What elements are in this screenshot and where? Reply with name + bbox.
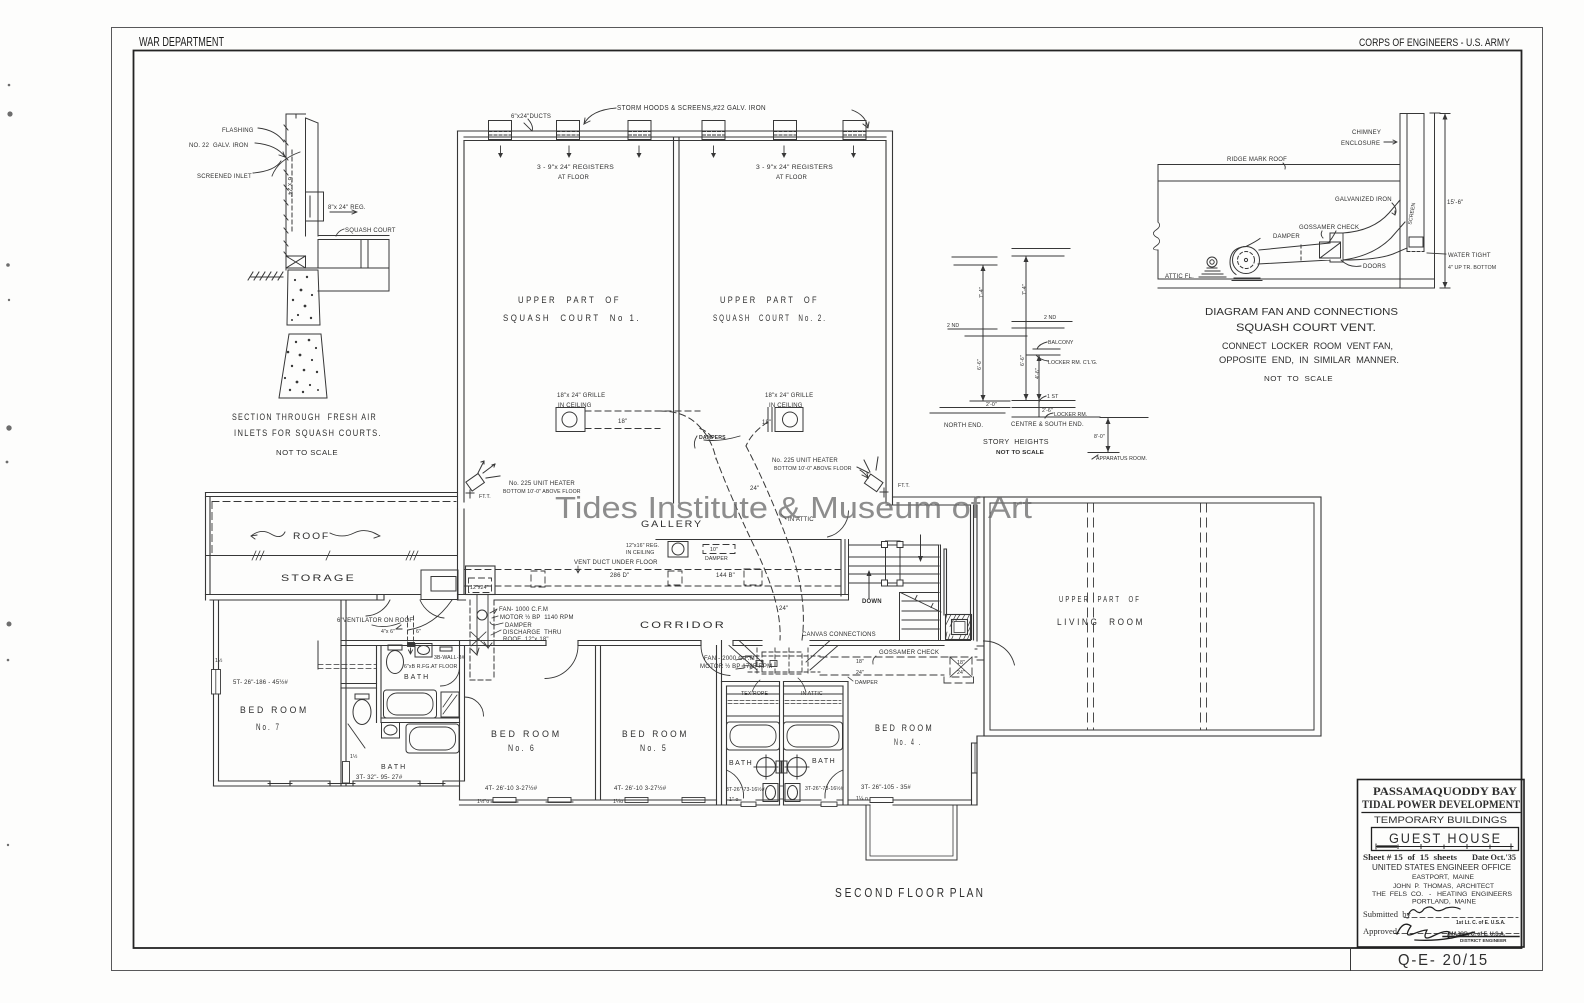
west wall with window (214, 600, 219, 786)
living room dashed beams (1088, 503, 1207, 730)
svg-text:FLASHING: FLASHING (222, 128, 254, 134)
svg-text:18": 18" (618, 419, 627, 425)
unit heater court 2 (857, 457, 888, 497)
svg-text:STORY HEIGHTS: STORY HEIGHTS (983, 439, 1049, 446)
fan diagram: chimney enclosure (1153, 113, 1450, 288)
tubs (727, 722, 780, 750)
svg-text:6"VENTILATOR ON ROOF: 6"VENTILATOR ON ROOF (337, 618, 413, 624)
leaders (1036, 342, 1053, 418)
svg-text:10": 10" (710, 547, 718, 553)
tub 1 (384, 690, 437, 718)
lower bath fixtures (353, 694, 459, 753)
svg-text:CANVAS CONNECTIONS: CANVAS CONNECTIONS (802, 632, 876, 638)
svg-text:WATER TIGHT: WATER TIGHT (1448, 253, 1491, 259)
svg-text:MOTOR ½ BP 1140 RPM: MOTOR ½ BP 1140 RPM (500, 614, 574, 621)
svg-text:DAMPER: DAMPER (705, 556, 728, 562)
floor plan: roof / storage block (206, 493, 458, 601)
storage north wall (206, 493, 458, 497)
upper bath south wall (381, 718, 460, 723)
damper duct Y (dashed) (660, 411, 803, 640)
svg-text:FAN- 1000 C.F.M: FAN- 1000 C.F.M (499, 607, 548, 613)
svg-text:GOSSAMER CHECK: GOSSAMER CHECK (1299, 225, 1359, 231)
south wall with windows (214, 781, 460, 786)
stair east wall (939, 545, 941, 640)
svg-text:2'-6": 2'-6" (1042, 408, 1053, 414)
svg-text:GOSSAMER CHECK: GOSSAMER CHECK (879, 650, 939, 656)
centre floor lines (1012, 249, 1070, 257)
closet shelves (727, 694, 844, 716)
svg-text:15'-6": 15'-6" (1447, 200, 1463, 206)
svg-text:No. 6: No. 6 (508, 743, 536, 754)
lower wall extension (306, 268, 390, 291)
south walls/windows (722, 804, 849, 806)
reg in ceiling box (668, 542, 688, 558)
north end dim line (982, 265, 984, 401)
svg-text:18"x 24" GRILLE: 18"x 24" GRILLE (765, 393, 813, 399)
floor plan: east wall, chimney (843, 497, 984, 646)
svg-text:PASSAMAQUODDY BAY: PASSAMAQUODDY BAY (1373, 784, 1517, 798)
svg-text:CHIMNEY: CHIMNEY (1352, 130, 1381, 136)
x-brace at wall base (286, 256, 306, 268)
svg-text:8"x 24" REG.: 8"x 24" REG. (328, 205, 366, 211)
svg-text:2 ND: 2 ND (947, 323, 959, 329)
svg-text:No. 5: No. 5 (640, 743, 668, 754)
svg-text:4"x 6": 4"x 6" (381, 629, 395, 635)
svg-text:NORTH END.: NORTH END. (944, 423, 983, 429)
signature 2 (1397, 924, 1475, 940)
svg-text:ROOF: ROOF (293, 531, 330, 541)
basins (763, 784, 800, 802)
story heights diagram (930, 249, 1148, 460)
squash courts: walls (458, 131, 893, 509)
south wall w/ windows (460, 800, 722, 805)
west wall below courts (458, 509, 465, 600)
svg-text:SECTION THROUGH FRESH AIR: SECTION THROUGH FRESH AIR (232, 412, 377, 422)
svg-text:LOCKER RM.: LOCKER RM. (1054, 412, 1087, 418)
svg-text:3 - 9"x 24" REGISTERS: 3 - 9"x 24" REGISTERS (537, 165, 614, 171)
svg-text:TEMPORARY BUILDINGS: TEMPORARY BUILDINGS (1374, 815, 1507, 826)
signature 1 (1408, 907, 1460, 915)
svg-text:4'-6": 4'-6" (1035, 368, 1041, 379)
svg-text:JOHN P. THOMAS, ARCHITECT: JOHN P. THOMAS, ARCHITECT (1393, 883, 1494, 890)
svg-text:CORPS OF ENGINEERS - U.S. ARMY: CORPS OF ENGINEERS - U.S. ARMY (1359, 37, 1511, 49)
unit heater court 1 (466, 461, 500, 498)
duct to right (1258, 233, 1343, 264)
partition (377, 646, 382, 723)
fan motor (1207, 257, 1217, 267)
title block box (1358, 780, 1525, 948)
svg-text:CONNECT LOCKER ROOM VENT FA: CONNECT LOCKER ROOM VENT FAN, (1222, 341, 1393, 351)
svg-text:3T- 32"- 95- 27#: 3T- 32"- 95- 27# (356, 775, 403, 781)
svg-text:2 ND: 2 ND (1044, 315, 1056, 321)
chimney hatched (946, 615, 972, 640)
roof vent hoods (489, 121, 867, 140)
squash to living connector walls (886, 497, 984, 505)
outer walls (722, 682, 849, 687)
svg-text:18": 18" (957, 660, 965, 666)
svg-text:BALCONY: BALCONY (1048, 340, 1074, 346)
svg-text:1½: 1½ (350, 753, 358, 760)
up arrow (868, 575, 870, 598)
svg-text:6"xB R.FG.AT FLOOR: 6"xB R.FG.AT FLOOR (404, 664, 457, 670)
floor plan: west bath complex (318, 641, 465, 801)
svg-text:UPPER PART OF: UPPER PART OF (1059, 594, 1141, 604)
svg-text:1 ST: 1 ST (1047, 394, 1059, 400)
svg-text:IN CEILING: IN CEILING (558, 403, 592, 409)
west wall (341, 646, 346, 787)
svg-text:FT.T.: FT.T. (898, 483, 910, 489)
svg-text:ATTIC FL.: ATTIC FL. (1165, 274, 1194, 280)
floor plan: living room (975, 497, 1321, 805)
closet at storage SE (366, 570, 458, 630)
svg-text:NOT TO SCALE: NOT TO SCALE (996, 450, 1045, 456)
svg-text:6"x24"DUCTS: 6"x24"DUCTS (511, 114, 551, 120)
svg-text:1½: 1½ (215, 657, 223, 664)
svg-text:PORTLAND, MAINE: PORTLAND, MAINE (1412, 899, 1476, 906)
svg-text:3T-26"-73-16½#: 3T-26"-73-16½# (726, 786, 765, 793)
storm hoods leader (524, 108, 869, 131)
svg-text:MOTOR ½ BP 1725 RPM: MOTOR ½ BP 1725 RPM (700, 663, 772, 670)
svg-text:24": 24" (957, 670, 965, 676)
svg-text:BED ROOM: BED ROOM (875, 723, 934, 734)
squash court floor (318, 236, 389, 240)
svg-text:STORAGE: STORAGE (281, 573, 356, 583)
shower stall (441, 692, 459, 717)
svg-text:BOTTOM 10'-0" ABOVE FLOOR: BOTTOM 10'-0" ABOVE FLOOR (774, 466, 852, 472)
svg-text:3B-WALL-3#: 3B-WALL-3# (434, 655, 465, 661)
svg-text:DISTRICT ENGINEER: DISTRICT ENGINEER (1460, 938, 1507, 943)
left margin punch marks (6, 84, 13, 847)
svg-text:TIDAL POWER DEVELOPMENT: TIDAL POWER DEVELOPMENT (1362, 799, 1520, 811)
floor plan: center baths (722, 682, 849, 806)
gallery south wall / corridor north wall (458, 595, 849, 601)
svg-text:BATH: BATH (729, 760, 753, 767)
svg-text:Q-E- 20/15: Q-E- 20/15 (1398, 952, 1489, 969)
south wall (848, 800, 977, 805)
attic floor (1158, 279, 1435, 288)
svg-text:No. 4 .: No. 4 . (894, 737, 922, 748)
svg-text:1st Lt. C. of E. U.S.A.: 1st Lt. C. of E. U.S.A. (1456, 920, 1506, 926)
svg-text:1¼o: 1¼o (613, 799, 623, 805)
svg-text:Date Oct.'35: Date Oct.'35 (1472, 852, 1516, 862)
svg-text:BED ROOM: BED ROOM (491, 729, 562, 740)
svg-text:12"x16" REG.: 12"x16" REG. (626, 543, 659, 549)
upper flight treads (849, 545, 940, 583)
louver ticks on wall (284, 125, 288, 257)
svg-text:DISCHARGE THRU: DISCHARGE THRU (503, 630, 562, 636)
svg-text:7'-4": 7'-4" (1022, 284, 1028, 295)
eave hatch marks (252, 551, 418, 560)
svg-text:DAMPER: DAMPER (855, 680, 878, 686)
svg-text:3T- 26"-105 - 35#: 3T- 26"-105 - 35# (861, 785, 911, 791)
toilets (754, 755, 809, 779)
floor plan: gallery (458, 509, 849, 600)
svg-text:6'-6": 6'-6" (977, 359, 983, 370)
svg-text:MAJOR, C. of E. U.S.A.: MAJOR, C. of E. U.S.A. (1449, 932, 1506, 938)
svg-text:SQUASH COURT VENT.: SQUASH COURT VENT. (1236, 322, 1376, 334)
svg-text:RIDGE MARK ROOF: RIDGE MARK ROOF (1227, 157, 1287, 163)
svg-text:DAMPER: DAMPER (1273, 234, 1300, 240)
stair west wall (845, 540, 849, 601)
svg-text:Tides Institute & Museum of Ar: Tides Institute & Museum of Art (555, 490, 1032, 525)
floor plan: vent shaft + fan 1000cfm (470, 595, 494, 681)
roof lines (1158, 165, 1400, 182)
svg-text:6": 6" (416, 629, 421, 635)
svg-text:BATH: BATH (381, 764, 407, 771)
flashing dashed line (291, 150, 293, 232)
svg-text:BED ROOM: BED ROOM (240, 705, 309, 716)
svg-text:18"x 24" GRILLE: 18"x 24" GRILLE (557, 393, 605, 399)
svg-text:1¼ o: 1¼ o (856, 796, 868, 802)
floor plan: stairs (828, 511, 942, 640)
gossamer check box (1320, 242, 1341, 258)
door arcs (545, 646, 578, 679)
svg-text:SQUASH COURT: SQUASH COURT (345, 228, 396, 234)
attic fan between baths (729, 641, 838, 675)
door arc gallery (828, 511, 849, 537)
register protrusion (306, 192, 324, 221)
svg-text:4T- 26'-10 3-27½#: 4T- 26'-10 3-27½# (485, 785, 538, 792)
apparatus room dims (1088, 418, 1148, 453)
svg-text:24": 24" (779, 606, 788, 612)
svg-text:SQUASH COURT No 1.: SQUASH COURT No 1. (503, 313, 641, 324)
svg-text:SCREENED INLET: SCREENED INLET (197, 174, 252, 180)
svg-text:CORRIDOR: CORRIDOR (640, 620, 726, 630)
ceiling grille court 1 (556, 408, 700, 432)
ceiling grille court 2 (768, 408, 803, 432)
svg-text:SCREEN: SCREEN (1407, 202, 1417, 225)
svg-text:GALVANIZED IRON: GALVANIZED IRON (1335, 197, 1392, 203)
bath door arcs (441, 668, 460, 686)
storage south wall (206, 595, 385, 601)
lower flight (900, 593, 940, 641)
upper bath fixtures (387, 644, 453, 674)
svg-text:12"x24": 12"x24" (470, 585, 489, 591)
svg-text:No. 225 UNIT HEATER: No. 225 UNIT HEATER (509, 481, 575, 487)
svg-text:CENTRE & SOUTH END.: CENTRE & SOUTH END. (1011, 422, 1084, 428)
svg-text:6"x 24": 6"x 24" (286, 177, 292, 197)
svg-text:3 - 9"x 24" REGISTERS: 3 - 9"x 24" REGISTERS (756, 165, 833, 171)
foundation pier (stippled) (279, 270, 327, 398)
diagonal run line (901, 593, 942, 613)
floor joists (318, 240, 389, 269)
down arrow (920, 535, 922, 557)
svg-text:6'-6": 6'-6" (1020, 355, 1026, 366)
svg-text:INLETS FOR SQUASH COURTS.: INLETS FOR SQUASH COURTS. (234, 428, 382, 438)
svg-text:24": 24" (856, 670, 864, 676)
east wall (shared bed6) (460, 641, 465, 801)
svg-text:4T- 26'-10 3-27½#: 4T- 26'-10 3-27½# (614, 785, 667, 792)
svg-text:NOT TO SCALE: NOT TO SCALE (276, 450, 338, 457)
storage west wall (206, 493, 211, 601)
svg-text:LIVING ROOM: LIVING ROOM (1057, 617, 1145, 628)
vent duct under floor (dashed) (465, 545, 840, 593)
corridor south wall segments with doors (341, 641, 1015, 679)
svg-text:VENT DUCT UNDER FLOOR: VENT DUCT UNDER FLOOR (574, 560, 658, 566)
svg-text:UPPER PART OF: UPPER PART OF (518, 295, 621, 306)
svg-text:UPPER PART OF: UPPER PART OF (720, 295, 819, 306)
svg-text:FAN - 2000 C.F.M: FAN - 2000 C.F.M (704, 656, 755, 662)
svg-text:DAMPER: DAMPER (505, 623, 532, 629)
east wall shared bed5 (596, 646, 601, 801)
damper dashed (1300, 245, 1302, 262)
east wall of bed7 (341, 600, 346, 646)
svg-text:3T-26"-73-16½#: 3T-26"-73-16½# (805, 785, 844, 792)
svg-text:1" o: 1" o (729, 797, 738, 803)
roof eave line (206, 555, 458, 557)
section drawing: fresh air inlet (248, 114, 389, 291)
svg-text:FT.T.: FT.T. (479, 494, 491, 500)
register flow arrows (498, 146, 856, 158)
inner border frame (134, 51, 1522, 949)
svg-text:IN ATTIC: IN ATTIC (801, 691, 823, 697)
dim 15-6 (1440, 114, 1450, 289)
svg-text:S E C O N D F L O O R P L A: S E C O N D F L O O R P L A N (835, 885, 983, 900)
wc south wall (341, 684, 377, 689)
gallery south boundary (duct top) (656, 540, 841, 597)
floor plan: bed room 7 (212, 600, 460, 786)
svg-text:IN CEILING: IN CEILING (626, 550, 654, 556)
svg-text:No. 7: No. 7 (256, 722, 281, 733)
svg-text:DOWN: DOWN (862, 599, 882, 605)
svg-text:GUEST HOUSE: GUEST HOUSE (1389, 831, 1502, 846)
svg-text:UNITED STATES ENGINEER OFFICE: UNITED STATES ENGINEER OFFICE (1372, 863, 1512, 872)
svg-text:Sheet # 15 of 15 sheets: Sheet # 15 of 15 sheets (1363, 852, 1458, 862)
svg-text:APPARATUS ROOM.: APPARATUS ROOM. (1096, 456, 1147, 462)
svg-text:DIAGRAM FAN AND CONNECTIONS: DIAGRAM FAN AND CONNECTIONS (1205, 306, 1398, 318)
svg-text:4" UP TR. BOTTOM: 4" UP TR. BOTTOM (1448, 265, 1496, 271)
svg-text:SQUASH COURT No. 2.: SQUASH COURT No. 2. (713, 313, 827, 324)
svg-text:AT FLOOR: AT FLOOR (776, 175, 808, 181)
svg-text:ENCLOSURE: ENCLOSURE (1341, 141, 1380, 147)
porch (866, 805, 957, 860)
svg-text:LOCKER RM. C'L'G.: LOCKER RM. C'L'G. (1048, 360, 1098, 366)
svg-text:AT FLOOR: AT FLOOR (558, 175, 590, 181)
svg-text:8'-0": 8'-0" (1094, 434, 1105, 440)
12x24 shaft box at west end (466, 566, 496, 595)
bath door arcs (727, 770, 744, 798)
stair rails (886, 541, 901, 586)
svg-text:7'-4": 7'-4" (979, 287, 985, 298)
svg-text:THE FELS CO. - HEATING: THE FELS CO. - HEATING ENGINEERS (1372, 891, 1512, 898)
svg-text:BATH: BATH (404, 674, 430, 681)
sheet number strip (1350, 948, 1352, 971)
centre dim lines (1025, 256, 1027, 400)
north end floor lines (952, 257, 997, 265)
svg-text:18": 18" (856, 659, 864, 665)
svg-text:DOORS: DOORS (1363, 264, 1386, 270)
svg-text:286 D": 286 D" (610, 573, 629, 579)
svg-text:BATH: BATH (812, 758, 836, 765)
gossamer duct along corridor (820, 657, 974, 683)
wall lines (286, 114, 318, 270)
duct curves up to chimney (1343, 200, 1405, 260)
svg-text:BED ROOM: BED ROOM (622, 729, 689, 740)
svg-text:1½"o: 1½"o (477, 798, 489, 805)
svg-text:NOT TO SCALE: NOT TO SCALE (1264, 376, 1333, 383)
wc shelf dashes (318, 665, 376, 669)
svg-text:144 B": 144 B" (716, 573, 735, 579)
east wall (972, 736, 978, 805)
svg-text:ROOF 12"x 18": ROOF 12"x 18" (503, 637, 549, 643)
svg-text:WAR DEPARTMENT: WAR DEPARTMENT (139, 35, 224, 49)
grade hatch (248, 272, 283, 280)
svg-text:IN CEILING: IN CEILING (769, 403, 803, 409)
svg-text:TEX ROPE: TEX ROPE (741, 691, 768, 697)
roof dashed edge (212, 502, 456, 556)
svg-text:Approved: Approved (1363, 926, 1398, 936)
door arcs below storage wall (366, 600, 390, 616)
ventilator / duct cluster (372, 616, 415, 654)
screen box in chimney (1409, 237, 1423, 247)
svg-text:EASTPORT, MAINE: EASTPORT, MAINE (1412, 874, 1474, 881)
svg-text:NO. 22 GALV. IRON: NO. 22 GALV. IRON (189, 143, 248, 149)
svg-text:2'-0": 2'-0" (986, 402, 997, 408)
svg-text:OPPOSITE END, IN SIMILAR M: OPPOSITE END, IN SIMILAR MANNER. (1219, 355, 1399, 365)
fan scroll (1233, 247, 1260, 274)
svg-text:5T- 26"-186 - 45½#: 5T- 26"-186 - 45½# (233, 679, 289, 686)
svg-text:No. 225 UNIT HEATER: No. 225 UNIT HEATER (772, 458, 838, 464)
svg-text:STORM HOODS & SCREENS,#22 GALV: STORM HOODS & SCREENS,#22 GALV. IRON (617, 105, 766, 112)
left wall with break (1157, 165, 1159, 280)
corridor south wall east segment (843, 641, 971, 646)
section leader lines (253, 128, 357, 236)
